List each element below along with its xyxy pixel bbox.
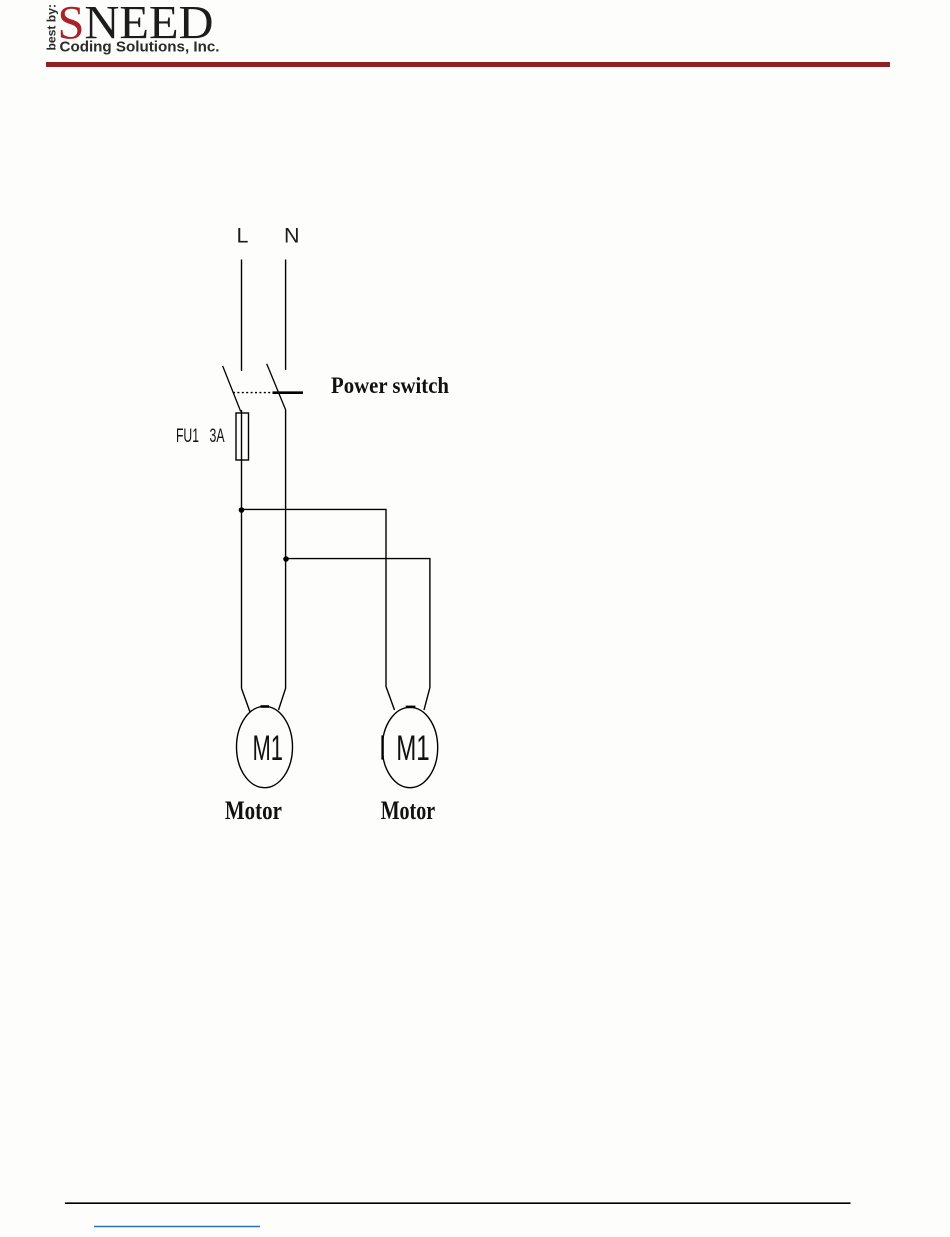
svg-text:L: L [237, 224, 249, 248]
motor M1 right left-edge tick [381, 735, 383, 759]
svg-text:Motor: Motor [225, 796, 282, 825]
wire through fuse down to lower junction [241, 410, 243, 688]
svg-text:3A: 3A [210, 426, 225, 447]
power switch pole 1 blade [223, 366, 241, 412]
wire L vertical upper [241, 260, 243, 372]
svg-text:N: N [284, 224, 300, 248]
power switch pole 2 blade [267, 364, 286, 410]
power switch actuator line [273, 391, 304, 394]
wire N vertical upper [285, 260, 287, 371]
wire N branch horizontal to right motor [286, 559, 430, 710]
motor M1 right top terminal dash [406, 706, 416, 709]
wire L branch horizontal to right motor [242, 509, 395, 710]
junction node on N wire [283, 556, 289, 562]
svg-text:Coding Solutions, Inc.: Coding Solutions, Inc. [60, 39, 220, 56]
svg-text:M1: M1 [253, 729, 284, 768]
header red rule [46, 62, 890, 67]
wire L lead into left motor [242, 688, 251, 712]
motor M1 left ellipse [237, 706, 293, 787]
motor M1 left top terminal dash [261, 705, 270, 708]
motor M1 right ellipse [382, 707, 437, 787]
junction node on L wire [239, 507, 245, 513]
wire N vertical lower [279, 410, 286, 711]
svg-text:best by:: best by: [45, 4, 59, 51]
fuse FU1 body [236, 413, 249, 460]
power switch dotted tie bar [233, 392, 272, 394]
svg-text:M1: M1 [396, 729, 430, 768]
footer hyperlink underline [94, 1226, 260, 1228]
svg-text:Power switch: Power switch [331, 373, 449, 398]
footer horizontal rule [65, 1202, 851, 1204]
svg-text:Motor: Motor [381, 796, 435, 825]
svg-text:FU1: FU1 [176, 426, 199, 447]
